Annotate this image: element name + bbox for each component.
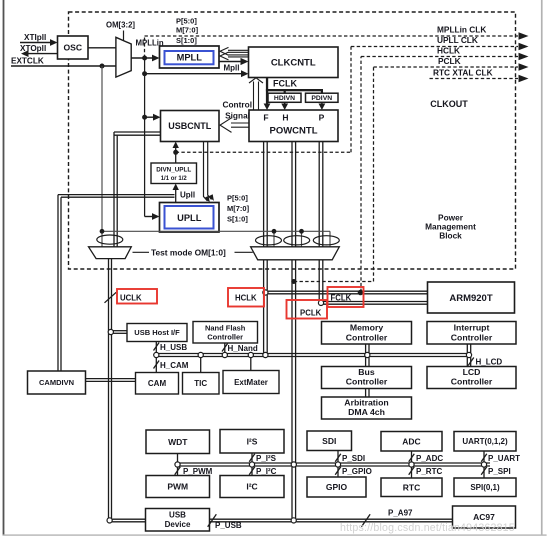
block ExtMater: [223, 371, 279, 394]
svg-text:P_ADC: P_ADC: [416, 454, 443, 463]
node HCLK branch circle: [318, 300, 323, 305]
block Arbitration DMA: [322, 397, 412, 419]
svg-text:HDIVN: HDIVN: [274, 95, 295, 102]
node MPLLin-CLKCNTL tap: [142, 71, 147, 76]
block OSC: [58, 36, 89, 59]
slash P_GPIO: [335, 467, 341, 475]
svg-text:M[7:0]: M[7:0]: [176, 25, 199, 34]
wire MPLLin from mux: [131, 57, 153, 59]
svg-text:Memory: Memory: [350, 323, 383, 333]
svg-text:P_SDI: P_SDI: [342, 454, 365, 463]
svg-text:FCLK: FCLK: [331, 293, 352, 302]
wire OM[3:2] stub: [123, 31, 125, 42]
frame right gray border: [541, 0, 543, 536]
svg-text:Controller: Controller: [451, 377, 493, 387]
wire ADC stub: [411, 451, 413, 478]
svg-text:CAMDIVN: CAMDIVN: [39, 378, 74, 387]
node PCLK tap dot: [291, 279, 296, 284]
svg-text:P[5:0]: P[5:0]: [227, 194, 248, 203]
bus F pair POWCNTL to mux: [264, 142, 268, 247]
svg-text:https://blog.csdn.net/tian4943: https://blog.csdn.net/tian494362815: [340, 522, 515, 534]
svg-text:Block: Block: [439, 231, 462, 241]
slash P_UART: [481, 454, 487, 462]
svg-text:Arbitration: Arbitration: [344, 398, 388, 408]
label XTOpll: [20, 44, 46, 53]
label P_SDI: [342, 454, 365, 463]
svg-text:PWM: PWM: [167, 482, 188, 492]
bus HCLK rail segment: [264, 295, 268, 353]
bus H pair POWCNTL to mux: [292, 142, 296, 247]
block I2S: [220, 430, 284, 454]
svg-text:PCLK: PCLK: [300, 308, 322, 317]
wire PMS lines USBCNTL to UPLL: [204, 142, 214, 203]
label P_UART: [488, 454, 520, 463]
svg-text:Test mode OM[1:0]: Test mode OM[1:0]: [151, 247, 226, 257]
wire EXTCLK rail down: [101, 66, 103, 247]
svg-text:Mpll: Mpll: [224, 64, 240, 73]
svg-text:XTOpll: XTOpll: [20, 44, 46, 53]
arrow into MPLL: [152, 55, 160, 62]
slash P_A97: [361, 514, 370, 526]
wire MPLLin to UPLL: [145, 213, 160, 220]
svg-text:P_RTC: P_RTC: [416, 467, 442, 476]
block SDI: [307, 431, 352, 451]
red label box FCLK: [328, 287, 364, 307]
label EXTCLK: [11, 57, 44, 66]
wire stub to HDIVN: [284, 89, 286, 94]
label CLKOUT: [430, 99, 468, 109]
wire MPLLin to USBCNTL: [145, 114, 161, 121]
wire I2S stub: [251, 453, 253, 476]
svg-text:UCLK: UCLK: [120, 293, 142, 302]
svg-text:M[7:0]: M[7:0]: [227, 204, 250, 213]
slash P_SDI: [335, 454, 341, 462]
wire UCLK pair USBCNTL corner: [114, 132, 161, 247]
block TIC: [183, 373, 220, 395]
bus P-ARM rail: [319, 260, 323, 301]
label OM[3:2]: [106, 21, 135, 30]
bus PCLK rail: [292, 260, 296, 518]
frame bottom gray border: [3, 534, 547, 535]
node AHB circle MemCtrl: [365, 352, 370, 357]
svg-text:P_I²C: P_I²C: [256, 467, 277, 476]
label MPLLin: [136, 39, 164, 48]
wire test mode label right: [235, 251, 253, 253]
svg-text:CLKCNTL: CLKCNTL: [271, 58, 316, 69]
label HCLK: [437, 46, 460, 56]
svg-text:MPLLin CLK: MPLLin CLK: [437, 25, 486, 35]
slash P_PWM: [175, 467, 181, 475]
node FCLK branch circle: [263, 290, 268, 295]
wire SDI stub: [337, 451, 339, 478]
svg-text:Controller: Controller: [346, 332, 388, 342]
label Mpll: [224, 64, 240, 73]
bus APB: [178, 463, 491, 466]
node AHB circle TIC: [198, 352, 203, 357]
svg-text:ARM920T: ARM920T: [449, 293, 492, 304]
arrow P into POWCNTL: [319, 102, 326, 110]
block Nand Flash Controller: [193, 322, 258, 344]
block CAM: [136, 373, 179, 395]
red label box PCLK: [287, 300, 328, 319]
slash P_I2S: [249, 454, 255, 462]
svg-text:Controller: Controller: [207, 333, 243, 342]
gate ellipse P: [313, 236, 339, 245]
block I2C: [220, 476, 284, 498]
mux test-mode left: [89, 247, 132, 259]
block DIVN_UPLL: [151, 163, 197, 184]
block ARM920T: [428, 282, 515, 313]
mux test-mode right: [251, 247, 340, 260]
node AHB circle HCLK: [263, 352, 268, 357]
label P_GPIO: [342, 467, 372, 476]
wire EXTCLK: [11, 65, 116, 67]
wire PMS hollow arrows CLKCNTL to MPLL: [220, 47, 249, 60]
svg-text:ExtMater: ExtMater: [234, 378, 268, 387]
frame left gray border: [3, 0, 5, 536]
node HCLK dashed tap dot: [358, 290, 364, 296]
block GPIO: [307, 477, 366, 497]
node AHB circle Nand: [222, 352, 227, 357]
svg-text:CLKOUT: CLKOUT: [430, 99, 468, 109]
label Control Signal: [223, 100, 253, 121]
block ADC: [381, 432, 442, 452]
svg-text:I²C: I²C: [246, 482, 257, 492]
svg-text:GPIO: GPIO: [326, 482, 348, 492]
label FCLK: [273, 79, 297, 89]
label Test mode OM[1:0]: [151, 247, 226, 257]
label P_RTC: [416, 467, 442, 476]
wire FCLK thick drop: [266, 78, 268, 105]
svg-text:Control: Control: [223, 100, 253, 110]
svg-text:RTC XTAL CLK: RTC XTAL CLK: [433, 68, 493, 78]
svg-text:Upll: Upll: [180, 191, 195, 200]
slash P_I2C: [249, 467, 255, 475]
node test line mid1: [272, 229, 277, 234]
node APB circle RTC: [409, 462, 414, 467]
wire left rail pair from Upll: [58, 195, 175, 371]
slash UCLK: [105, 292, 117, 303]
svg-text:F: F: [263, 113, 268, 123]
svg-text:UART(0,1,2): UART(0,1,2): [462, 437, 508, 446]
label H_CAM: [160, 361, 189, 370]
wire MPLLin CLK dashed route: [145, 32, 529, 58]
label P[5:0] M[7:0] S[1:0] (UPLL): [227, 194, 250, 224]
svg-text:LCD: LCD: [463, 367, 481, 377]
wire Bus Ctrl stub: [366, 357, 369, 367]
bus P pair POWCNTL to mux: [319, 142, 323, 247]
node bottom PCLK circle: [291, 518, 296, 523]
label P_ADC: [416, 454, 443, 463]
svg-text:OM[3:2]: OM[3:2]: [106, 21, 135, 30]
bus AHB: [156, 354, 470, 357]
slash P_USB: [208, 514, 217, 526]
wire H_Nand stub: [224, 343, 226, 353]
label H_USB: [160, 343, 187, 352]
svg-text:DIVN_UPLL: DIVN_UPLL: [156, 167, 191, 174]
block PDIVN: [306, 93, 339, 102]
svg-text:H: H: [282, 113, 288, 123]
svg-text:USB Host I/F: USB Host I/F: [134, 328, 180, 337]
svg-text:P_USB: P_USB: [215, 521, 242, 530]
wire MPLLin rail down: [144, 58, 146, 217]
arrow H into POWCNTL: [281, 102, 288, 110]
svg-text:USBCNTL: USBCNTL: [168, 121, 211, 131]
wire XTIpll into OSC: [20, 39, 58, 46]
label Upll: [180, 191, 195, 200]
node test line mid2: [299, 229, 304, 234]
gate ellipse UCLK: [97, 235, 123, 244]
svg-text:H_LCD: H_LCD: [476, 358, 503, 367]
svg-text:P_PWM: P_PWM: [183, 467, 213, 476]
wire DIVN_UPLL to USBCNTL: [173, 142, 179, 164]
wire RTC XTAL CLK dashed route: [430, 75, 529, 83]
wire stub to PDIVN: [321, 89, 323, 94]
wire PCLK dashed route: [294, 63, 529, 281]
svg-text:WDT: WDT: [168, 437, 188, 447]
label P_I2C: [256, 467, 277, 476]
bus FCLK rail upper: [264, 260, 268, 290]
wire control hollow arrow POWCNTL to USBCNTL: [220, 118, 249, 133]
label XTIpll: [24, 33, 46, 42]
svg-text:PDIVN: PDIVN: [311, 95, 332, 102]
wire FCLK thick bar: [266, 89, 323, 91]
svg-text:P_A97: P_A97: [388, 509, 413, 518]
block LCD Controller: [427, 367, 516, 389]
svg-text:Controller: Controller: [346, 377, 388, 387]
node APB circle PCLK: [291, 462, 296, 467]
slash H_USB: [154, 343, 160, 351]
node MPLLin-USBCNTL tap: [142, 115, 147, 120]
svg-text:CAM: CAM: [148, 379, 167, 388]
label P[5:0] M[7:0] S[1:0] (MPLL): [176, 17, 199, 46]
wire UCLK to USB Device: [112, 519, 146, 522]
wire UPLL CLK dashed route: [176, 43, 529, 153]
svg-text:DMA 4ch: DMA 4ch: [348, 407, 385, 417]
label P_I2S: [256, 454, 277, 463]
wire WDT stub: [177, 454, 179, 476]
label UPLL CLK: [437, 35, 478, 45]
svg-text:ADC: ADC: [402, 436, 420, 446]
block Memory Controller: [322, 322, 412, 345]
svg-text:P[5:0]: P[5:0]: [176, 17, 197, 26]
svg-text:MPLL: MPLL: [177, 53, 203, 63]
slash H_Nand: [222, 344, 228, 352]
svg-text:AC97: AC97: [473, 512, 495, 522]
arrow F into POWCNTL: [264, 104, 271, 111]
svg-text:H_Nand: H_Nand: [228, 344, 258, 353]
block USBCNTL: [161, 111, 220, 142]
label H_Nand: [228, 344, 258, 353]
label P_USB: [215, 521, 242, 530]
red label box HCLK: [228, 288, 264, 307]
block UPLL: [160, 203, 220, 233]
svg-text:P_GPIO: P_GPIO: [342, 467, 372, 476]
slash P_ADC: [409, 454, 415, 462]
block USB Device: [146, 509, 210, 532]
wire CAMDIVN to CAM: [86, 379, 136, 382]
block CLKCNTL: [249, 47, 339, 78]
bus HCLK to ARM920T: [323, 302, 427, 305]
block RTC: [381, 478, 442, 497]
node AHB circle ExtMater: [248, 352, 253, 357]
label PCLK: [438, 56, 461, 66]
svg-text:I²S: I²S: [247, 436, 258, 446]
block PWM: [146, 476, 210, 498]
gate ellipse H: [284, 236, 310, 245]
svg-text:Interrupt: Interrupt: [454, 323, 490, 333]
gate ellipse F: [256, 236, 282, 245]
bus UCLK rail: [109, 259, 112, 519]
svg-text:P: P: [319, 113, 325, 123]
node UCLK bottom circle: [107, 518, 112, 523]
label RTC XTAL CLK: [433, 68, 493, 78]
block Bus Controller: [322, 367, 412, 389]
block SPI: [454, 478, 516, 497]
svg-text:XTIpll: XTIpll: [24, 33, 46, 42]
bus bottom P_A97: [210, 519, 453, 522]
wire control hollow arrow POWCNTL to CLKCNTL: [249, 78, 263, 110]
node APB circle GPIO: [335, 462, 340, 467]
slash P_RTC: [409, 467, 415, 475]
svg-text:TIC: TIC: [194, 379, 207, 388]
node test line left: [100, 229, 105, 234]
wire test clock line: [102, 231, 330, 247]
wire Arbitration stub: [366, 389, 369, 398]
svg-text:Nand Flash: Nand Flash: [205, 324, 246, 333]
block POWCNTL: [249, 110, 338, 142]
wire XTOpll out of OSC: [21, 50, 58, 57]
wire OSC to OM mux: [88, 47, 116, 49]
node AHB circle IntCtrl: [466, 352, 471, 357]
node MPLLin junction: [142, 56, 147, 61]
svg-text:1/1 or 1/2: 1/1 or 1/2: [161, 176, 188, 182]
svg-text:Bus: Bus: [358, 367, 375, 377]
block CAMDIVN: [28, 371, 86, 394]
svg-text:OSC: OSC: [63, 43, 82, 53]
svg-text:H_CAM: H_CAM: [160, 361, 189, 370]
node UPLL CLK tap: [173, 150, 178, 155]
svg-text:RTC: RTC: [403, 482, 420, 492]
block Interrupt Controller: [427, 322, 516, 345]
svg-text:UPLL: UPLL: [177, 213, 202, 223]
node AHB circle USBHost: [154, 352, 159, 357]
power management block dashed boundary: [69, 12, 516, 269]
label P_PWM: [183, 467, 213, 476]
wire H_USB stub: [155, 342, 157, 373]
svg-text:Device: Device: [165, 520, 191, 529]
block UART: [454, 432, 516, 452]
svg-text:UPLL CLK: UPLL CLK: [437, 35, 478, 45]
label H_LCD: [476, 358, 503, 367]
svg-text:H_USB: H_USB: [160, 343, 187, 352]
slash H_LCD: [468, 358, 474, 366]
wire USB Host to UCLK rail: [112, 331, 127, 334]
svg-text:HCLK: HCLK: [235, 293, 257, 302]
wire TIC stub: [200, 357, 202, 373]
bus FCLK to ARM920T: [268, 291, 428, 294]
mux OM[3:2]: [116, 37, 131, 77]
svg-text:SDI: SDI: [322, 436, 336, 446]
svg-text:HCLK: HCLK: [437, 46, 460, 56]
svg-text:SPI(0,1): SPI(0,1): [470, 483, 500, 492]
svg-text:P_SPI: P_SPI: [488, 467, 511, 476]
node APB circle SPI: [481, 462, 486, 467]
node UCLK-USBHost circle: [108, 329, 113, 334]
svg-text:FCLK: FCLK: [273, 79, 297, 89]
svg-text:P_UART: P_UART: [488, 454, 520, 463]
block WDT: [146, 430, 210, 454]
slash P_SPI: [481, 467, 487, 475]
block HDIVN: [268, 93, 301, 102]
wire ExtMater stub: [250, 357, 252, 371]
label Power Management Block: [425, 213, 476, 241]
node APB circle I2C: [249, 462, 254, 467]
label P_SPI: [488, 467, 511, 476]
wire test mode label left: [133, 251, 150, 253]
wire LCD stub: [467, 357, 470, 367]
svg-text:PCLK: PCLK: [438, 56, 461, 66]
wire Mpll MPLL to CLKCNTL: [219, 58, 249, 65]
svg-text:EXTCLK: EXTCLK: [11, 57, 44, 66]
block MPLL: [160, 46, 220, 68]
label P_A97: [388, 509, 413, 518]
svg-text:S[1:0]: S[1:0]: [176, 36, 197, 45]
wire Upll UPLL to DIVN_UPLL: [173, 184, 179, 203]
wire HCLK dashed route: [361, 53, 529, 292]
svg-text:Controller: Controller: [451, 332, 493, 342]
wire MPLLin to CLKCNTL: [145, 70, 249, 77]
svg-text:USB: USB: [169, 511, 186, 520]
svg-text:POWCNTL: POWCNTL: [269, 126, 317, 137]
red label box UCLK: [117, 289, 157, 304]
wire Interrupt stub: [467, 344, 470, 353]
watermark: [340, 522, 515, 534]
slash H_CAM: [154, 361, 160, 369]
node APB circle PWM: [175, 462, 180, 467]
block USB Host I/F: [127, 324, 187, 342]
node EXTCLK junction: [100, 64, 105, 69]
wire UART stub: [483, 451, 485, 478]
label MPLLin CLK: [437, 25, 486, 35]
wire Memory Ctrl stub: [366, 344, 369, 353]
block AC97: [453, 506, 516, 528]
svg-text:P_I²S: P_I²S: [256, 454, 277, 463]
svg-text:S[1:0]: S[1:0]: [227, 215, 248, 224]
